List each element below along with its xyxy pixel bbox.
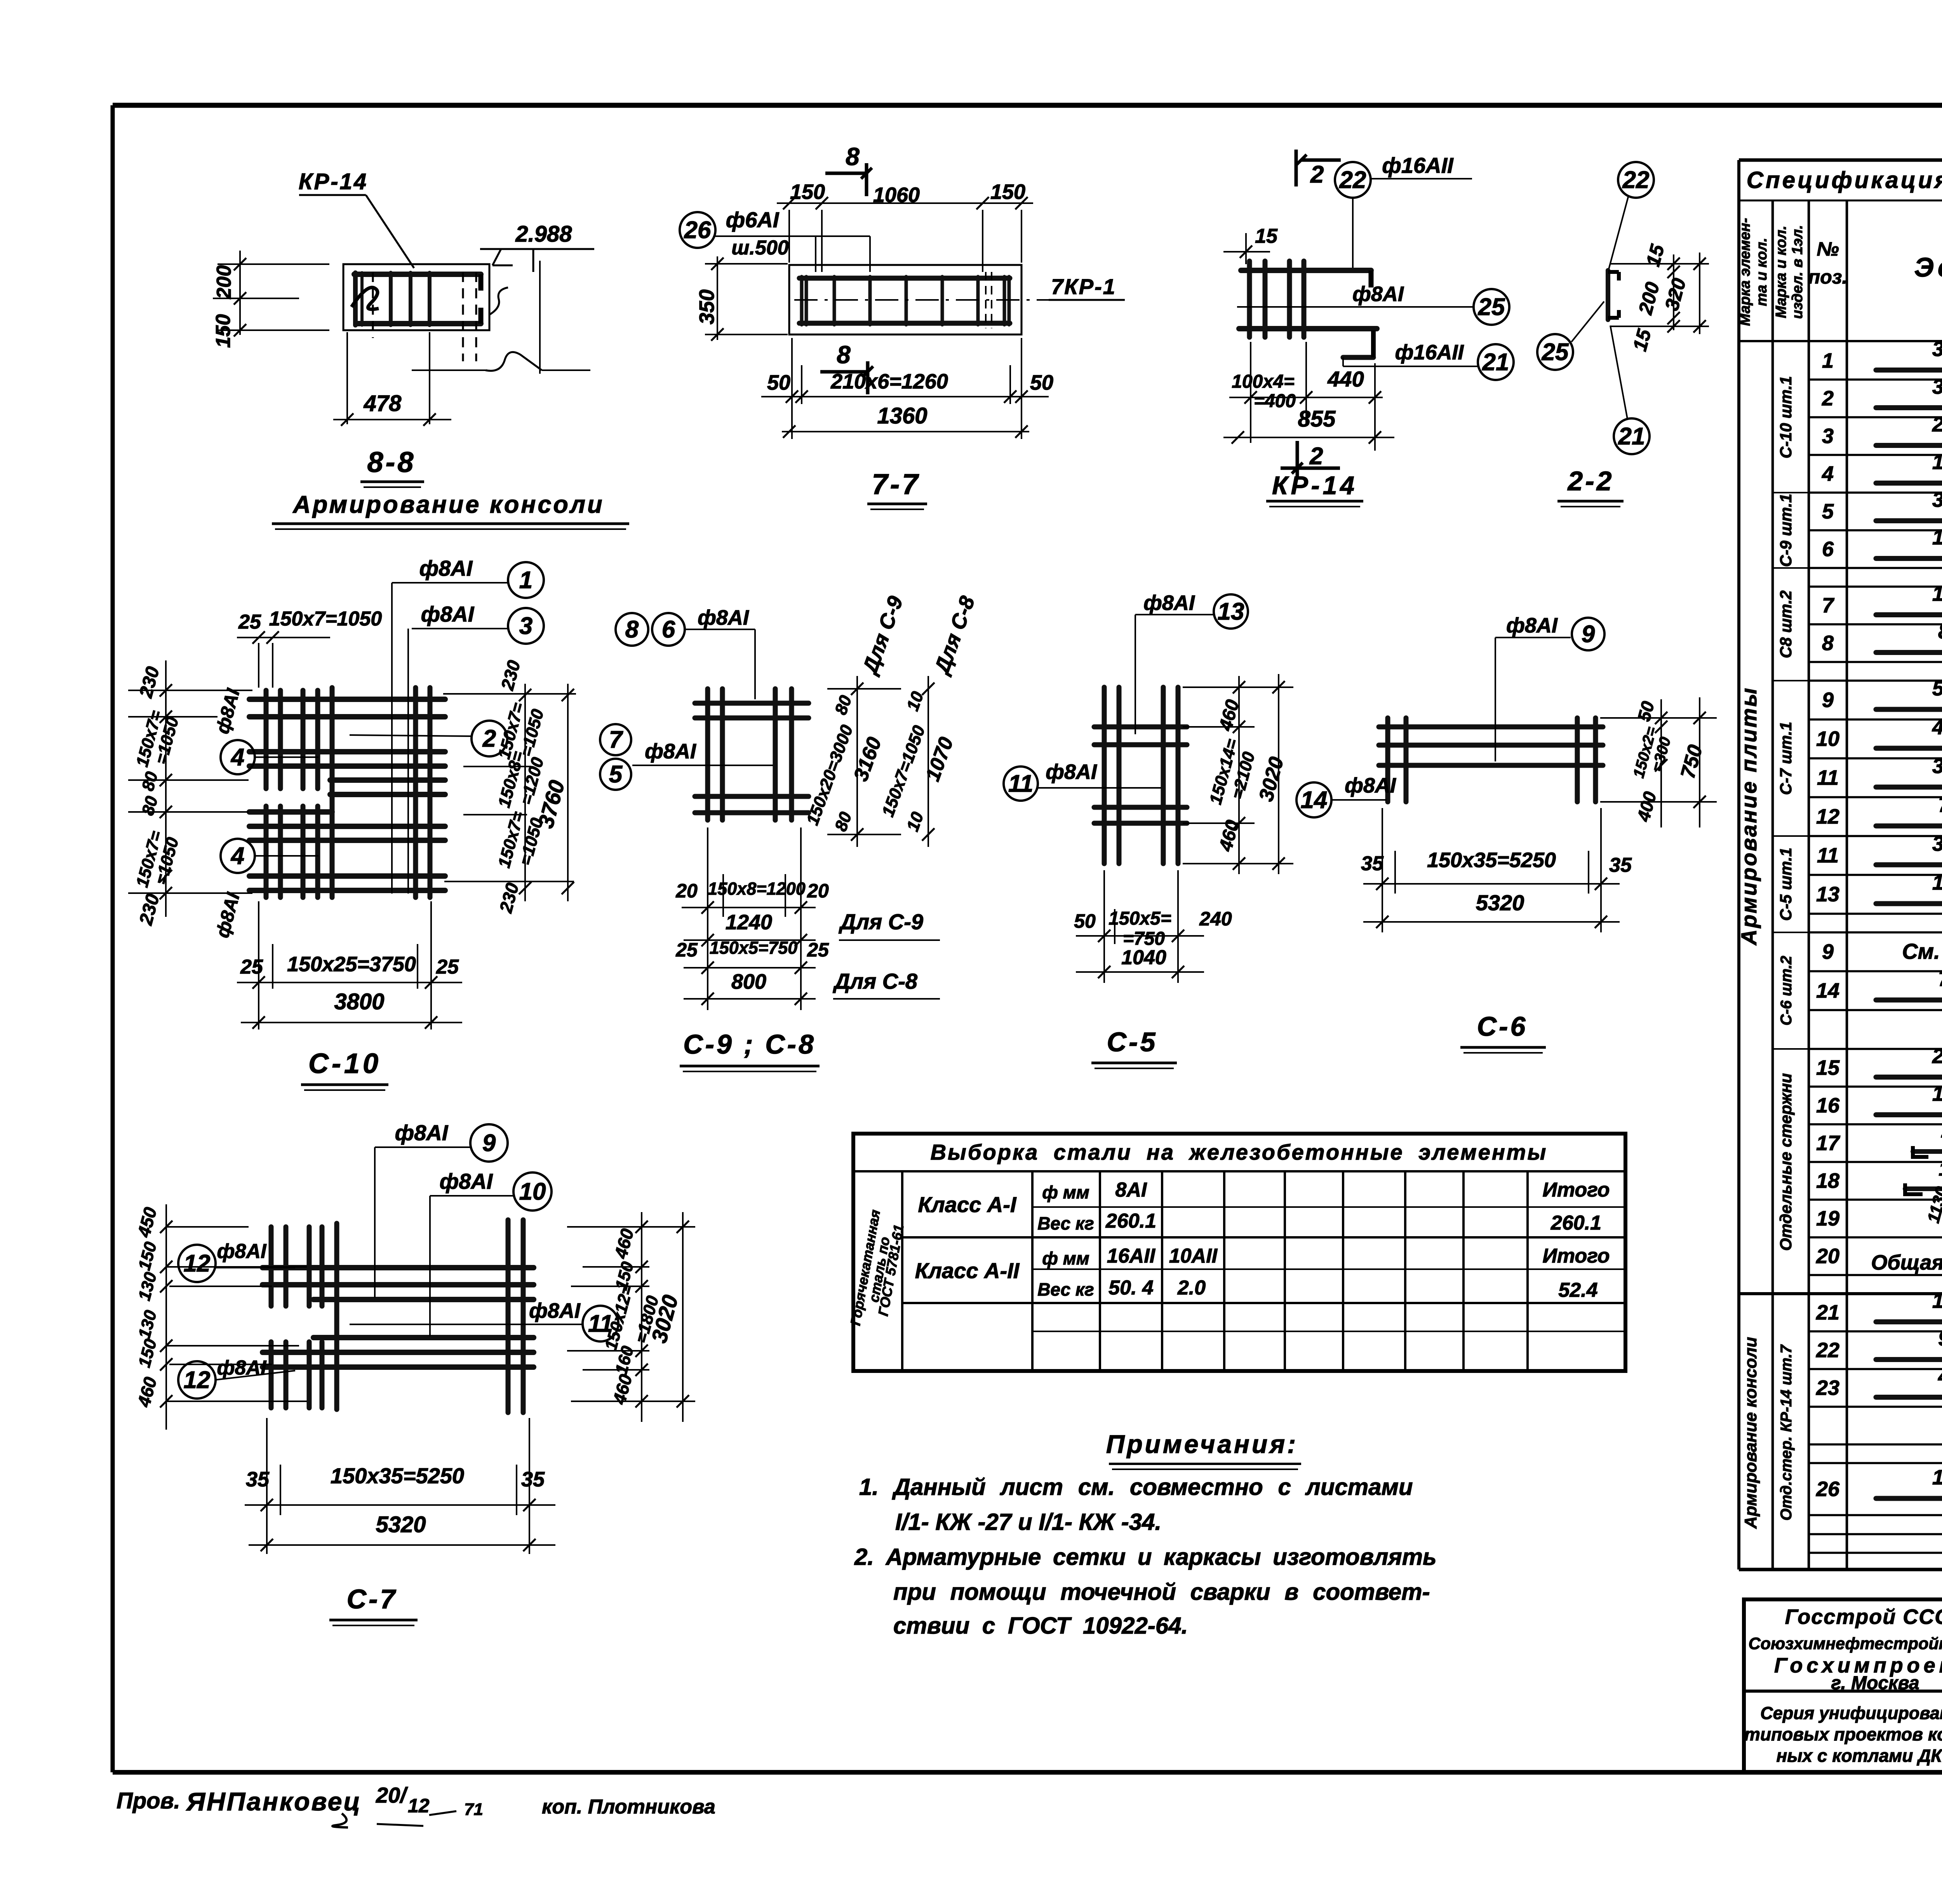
- svg-text:2: 2: [1309, 443, 1323, 470]
- svg-text:6: 6: [1822, 538, 1834, 561]
- svg-text:Итого: Итого: [1543, 1245, 1610, 1267]
- svg-text:25: 25: [1542, 339, 1569, 366]
- svg-text:издел. в 1эл.: издел. в 1эл.: [1789, 225, 1806, 319]
- svg-text:150x35=5250: 150x35=5250: [331, 1463, 464, 1488]
- svg-text:Вес кг: Вес кг: [1037, 1213, 1094, 1233]
- spec table row lines: [1809, 378, 1942, 381]
- right break line of 8-8: [539, 261, 541, 374]
- svg-text:26: 26: [684, 217, 711, 244]
- svg-text:ф8АI: ф8АI: [698, 606, 749, 629]
- svg-text:25: 25: [1478, 294, 1505, 321]
- svg-text:17: 17: [1816, 1132, 1841, 1155]
- svg-text:25: 25: [807, 939, 829, 961]
- svg-text:20: 20: [1816, 1245, 1839, 1268]
- svg-text:Пров.: Пров.: [117, 1788, 180, 1813]
- mesh C-6 bars: [1379, 725, 1603, 730]
- svg-text:ф8АI: ф8АI: [645, 740, 696, 763]
- svg-text:150x5=: 150x5=: [1108, 908, 1171, 929]
- svg-text:Союзхимнефтестройпроект: Союзхимнефтестройпроект: [1749, 1634, 1942, 1653]
- leader circles 8 6: [616, 613, 648, 646]
- svg-text:4: 4: [230, 744, 244, 771]
- svg-text:9: 9: [482, 1130, 496, 1157]
- svg-text:1: 1: [519, 567, 532, 594]
- svg-text:1040: 1040: [1121, 946, 1166, 969]
- mesh C-9 C-8 bars: [705, 689, 710, 820]
- svg-text:1360: 1360: [877, 403, 927, 429]
- svg-text:1240: 1240: [1932, 526, 1942, 549]
- svg-text:7: 7: [1822, 594, 1835, 617]
- KR-14 mesh bars: [1247, 261, 1252, 337]
- svg-text:3160: 3160: [1932, 488, 1942, 512]
- svg-text:71: 71: [464, 1800, 483, 1819]
- svg-text:С8 шт.2: С8 шт.2: [1777, 591, 1795, 658]
- svg-text:ных с котлами ДКВР.: ных с котлами ДКВР.: [1776, 1745, 1942, 1766]
- svg-text:22: 22: [1339, 167, 1366, 193]
- svg-text:20: 20: [807, 880, 829, 902]
- leader circle 12 upper of C-7: [178, 1245, 216, 1282]
- svg-text:22: 22: [1622, 167, 1650, 193]
- svg-text:при помощи точечной сварки: при помощи точечной сварки в соответ-: [893, 1579, 1430, 1605]
- leader circle 11 of C-5: [1004, 766, 1038, 801]
- svg-text:25: 25: [675, 939, 698, 961]
- svg-text:ф8АI: ф8АI: [1345, 774, 1396, 797]
- svg-text:8АI: 8АI: [1115, 1179, 1147, 1201]
- mesh C-5 bars: [1102, 687, 1107, 864]
- svg-text:12: 12: [184, 1367, 211, 1394]
- svg-text:1500: 1500: [1932, 1082, 1942, 1106]
- svg-text:ф8АI: ф8АI: [395, 1120, 449, 1145]
- svg-text:ЯНПанковец: ЯНПанковец: [186, 1787, 362, 1816]
- svg-text:Для С-8: Для С-8: [833, 969, 918, 993]
- svg-text:С-6: С-6: [1477, 1011, 1528, 1042]
- svg-text:5320: 5320: [376, 1512, 426, 1537]
- svg-text:50: 50: [1074, 910, 1096, 932]
- svg-text:1: 1: [1822, 349, 1834, 373]
- svg-text:Итого: Итого: [1543, 1179, 1610, 1201]
- svg-text:3760: 3760: [1932, 375, 1942, 399]
- svg-text:478: 478: [364, 391, 402, 416]
- svg-text:С-7: С-7: [347, 1584, 398, 1614]
- svg-text:7-7: 7-7: [872, 468, 921, 500]
- svg-text:9: 9: [1582, 621, 1595, 648]
- svg-text:14: 14: [1816, 979, 1839, 1002]
- leader circle 21 of 2-2: [1614, 418, 1650, 454]
- leader circle 26: [680, 212, 715, 248]
- svg-text:6: 6: [662, 616, 675, 643]
- section mark 2 top of KR-14: [1295, 150, 1298, 186]
- section 8-8 dashed bars: [372, 272, 374, 338]
- svg-text:2.988: 2.988: [515, 221, 572, 247]
- svg-text:типовых проектов котель-: типовых проектов котель-: [1744, 1724, 1942, 1744]
- svg-text:52.4: 52.4: [1558, 1279, 1597, 1301]
- svg-text:11: 11: [1817, 766, 1839, 789]
- svg-text:9: 9: [1822, 688, 1834, 712]
- svg-text:3: 3: [1822, 425, 1834, 448]
- svg-text:С-5: С-5: [1107, 1027, 1158, 1057]
- svg-text:12: 12: [408, 1795, 430, 1817]
- svg-text:Марка и кол.: Марка и кол.: [1773, 226, 1789, 318]
- svg-text:Армирование консоли: Армирование консоли: [1741, 1337, 1760, 1529]
- svg-text:440: 440: [1327, 367, 1364, 391]
- svg-text:25: 25: [238, 611, 261, 633]
- section 8-8 concrete outline: [343, 264, 489, 330]
- svg-text:3800: 3800: [1932, 338, 1942, 361]
- svg-text:200: 200: [213, 265, 235, 300]
- svg-text:С-6 шт.2: С-6 шт.2: [1778, 956, 1795, 1026]
- svg-text:3020: 3020: [1932, 754, 1942, 778]
- svg-text:260.1: 260.1: [1105, 1210, 1156, 1232]
- svg-text:740: 740: [1938, 793, 1942, 817]
- section 8-8 rebar cage: [354, 272, 481, 277]
- svg-text:10АII: 10АII: [1169, 1245, 1218, 1267]
- svg-text:18: 18: [1816, 1169, 1839, 1193]
- svg-text:ф6АI: ф6АI: [726, 207, 780, 232]
- svg-text:ф16АII: ф16АII: [1382, 153, 1454, 178]
- svg-text:ф8АI: ф8АI: [1352, 282, 1404, 306]
- svg-text:9: 9: [1822, 940, 1834, 963]
- svg-text:150x7=1050: 150x7=1050: [269, 608, 382, 630]
- svg-text:1360: 1360: [1932, 451, 1942, 474]
- svg-text:12: 12: [1816, 805, 1839, 828]
- svg-text:1040: 1040: [1932, 871, 1942, 894]
- svg-text:та и кол.: та и кол.: [1754, 238, 1770, 306]
- svg-text:С-9 ; С-8: С-9 ; С-8: [683, 1029, 816, 1059]
- svg-text:3020: 3020: [1932, 832, 1942, 855]
- svg-text:ф мм: ф мм: [1042, 1182, 1089, 1202]
- svg-text:1090: 1090: [1932, 1289, 1942, 1313]
- svg-text:8-8: 8-8: [367, 446, 416, 478]
- svg-text:100x4=: 100x4=: [1232, 371, 1295, 392]
- svg-text:ф8АI: ф8АI: [217, 1357, 267, 1379]
- svg-text:ф8АI: ф8АI: [1506, 614, 1558, 637]
- svg-text:11: 11: [1817, 844, 1839, 867]
- svg-text:350: 350: [695, 289, 719, 324]
- svg-text:3: 3: [519, 613, 532, 639]
- svg-text:35: 35: [1609, 854, 1632, 876]
- svg-text:10: 10: [1816, 727, 1839, 751]
- svg-text:4: 4: [230, 843, 244, 869]
- leader circles 7 5: [600, 724, 631, 755]
- svg-text:КР-14: КР-14: [299, 169, 368, 194]
- svg-text:ствии с ГОСТ 10922-64.: ствии с ГОСТ 10922-64.: [893, 1613, 1188, 1639]
- svg-text:14: 14: [1301, 787, 1328, 814]
- svg-text:4550: 4550: [1932, 716, 1942, 739]
- svg-text:ф8АI: ф8АI: [217, 1240, 267, 1263]
- svg-text:240: 240: [1199, 908, 1232, 930]
- section 7-7 rebar cage: [799, 276, 1010, 281]
- svg-text:Класс А-II: Класс А-II: [915, 1258, 1020, 1283]
- spec table col1 group lines: [1773, 492, 1809, 493]
- svg-text:11: 11: [1008, 770, 1033, 797]
- svg-text:150x35=5250: 150x35=5250: [1427, 848, 1556, 872]
- leader circle 2 right C-10: [472, 721, 507, 756]
- svg-text:260.1: 260.1: [1550, 1212, 1601, 1234]
- svg-text:ф16АII: ф16АII: [1395, 341, 1464, 364]
- svg-text:КР-14: КР-14: [1272, 471, 1357, 500]
- svg-text:1240: 1240: [726, 911, 772, 934]
- svg-text:13: 13: [1218, 598, 1244, 625]
- table vyborka stali horizontals: [1032, 1206, 1625, 1208]
- svg-text:50. 4: 50. 4: [1108, 1277, 1154, 1299]
- svg-text:2: 2: [1310, 161, 1324, 188]
- leader circle 22 KR-14: [1335, 162, 1371, 198]
- svg-text:Примечания:: Примечания:: [1106, 1430, 1298, 1458]
- svg-text:21: 21: [1816, 1301, 1839, 1324]
- 2-2 element plate: [1606, 270, 1610, 320]
- section 8-8 squiggle mark: [352, 287, 379, 309]
- svg-text:50: 50: [1030, 371, 1053, 394]
- svg-text:г. Москва: г. Москва: [1831, 1673, 1919, 1693]
- svg-text:13: 13: [1816, 883, 1839, 906]
- svg-text:3800: 3800: [334, 989, 384, 1014]
- svg-text:25: 25: [240, 956, 263, 978]
- svg-text:2: 2: [482, 725, 496, 752]
- svg-text:Отд.стер. КР-14 шт.7: Отд.стер. КР-14 шт.7: [1778, 1344, 1795, 1521]
- svg-text:I/1- КЖ -27 и I/1- КЖ -34.: I/1- КЖ -27 и I/1- КЖ -34.: [895, 1509, 1161, 1535]
- svg-text:23: 23: [1816, 1376, 1839, 1400]
- svg-text:800: 800: [1938, 620, 1942, 643]
- svg-text:Вес кг: Вес кг: [1037, 1279, 1094, 1300]
- svg-text:475: 475: [1938, 1365, 1942, 1388]
- table vyborka stali verticals: [901, 1171, 903, 1371]
- svg-text:Госстрой СССР: Госстрой СССР: [1785, 1605, 1942, 1629]
- svg-text:5320: 5320: [1932, 677, 1942, 700]
- svg-text:2740: 2740: [1932, 413, 1942, 436]
- section 7-7 concrete outline: [789, 265, 1021, 334]
- leader circle 4 lower C-10: [221, 839, 255, 873]
- spec table group separator thick: [1739, 1292, 1942, 1295]
- svg-text:1300: 1300: [1932, 1466, 1942, 1489]
- leader circle 25 of 2-2: [1537, 334, 1573, 370]
- svg-text:№: №: [1817, 238, 1839, 260]
- svg-text:955: 955: [1938, 1327, 1942, 1350]
- border frame: [113, 103, 1942, 108]
- svg-text:20: 20: [675, 880, 698, 902]
- svg-text:750: 750: [1938, 967, 1942, 991]
- svg-text:1. Данный лист см. совмест: 1. Данный лист см. совместно с листами: [859, 1474, 1413, 1500]
- svg-text:ф8АI: ф8АI: [421, 602, 475, 626]
- svg-text:5320: 5320: [1476, 890, 1524, 915]
- svg-text:2.0: 2.0: [1177, 1277, 1206, 1299]
- svg-text:1070: 1070: [1932, 582, 1942, 606]
- svg-text:2. Арматурные сетки и каркас: 2. Арматурные сетки и каркасы изготовлят…: [854, 1544, 1437, 1570]
- svg-text:Для С-9: Для С-9: [839, 909, 923, 934]
- spec table vertical lines: [1771, 200, 1774, 1570]
- svg-text:150x25=3750: 150x25=3750: [287, 953, 416, 976]
- svg-text:16АII: 16АII: [1107, 1245, 1156, 1267]
- mesh C-7 bars: [269, 1227, 274, 1306]
- svg-text:150x5=750: 150x5=750: [710, 938, 798, 958]
- svg-text:35: 35: [521, 1468, 545, 1491]
- svg-text:8: 8: [837, 341, 851, 369]
- svg-text:35: 35: [1361, 852, 1384, 875]
- leader circle 14 of C-6: [1296, 782, 1331, 817]
- svg-text:Марка элемен-: Марка элемен-: [1737, 218, 1753, 326]
- svg-text:16: 16: [1816, 1094, 1840, 1117]
- svg-text:8: 8: [1822, 632, 1834, 655]
- dim 478 below 8-8: [346, 332, 348, 424]
- svg-text:150x8=1200: 150x8=1200: [708, 879, 806, 899]
- svg-text:См. выше: См. выше: [1902, 939, 1942, 963]
- svg-text:ф мм: ф мм: [1042, 1248, 1089, 1268]
- svg-text:2-2: 2-2: [1567, 466, 1614, 496]
- svg-text:15: 15: [1255, 225, 1278, 247]
- stamp outer box: [1744, 1599, 1942, 1772]
- svg-text:19: 19: [1816, 1207, 1839, 1230]
- svg-text:35: 35: [246, 1468, 270, 1491]
- svg-text:С-10 шт.1: С-10 шт.1: [1777, 376, 1795, 458]
- leader circle 22 of 2-2: [1618, 162, 1654, 198]
- svg-text:ф8АI: ф8АI: [440, 1169, 493, 1193]
- svg-text:4: 4: [1822, 462, 1834, 486]
- svg-text:5: 5: [609, 761, 623, 788]
- leader circle 12 lower of C-7: [178, 1361, 216, 1399]
- svg-text:Армирование консоли: Армирование консоли: [292, 491, 604, 518]
- svg-text:ф8АI: ф8АI: [529, 1299, 581, 1322]
- mesh C-10 bars: [249, 697, 445, 702]
- table vyborka stali outer: [853, 1134, 1625, 1371]
- svg-text:5: 5: [1822, 500, 1834, 523]
- svg-text:Класс А-I: Класс А-I: [918, 1192, 1017, 1217]
- svg-text:150: 150: [790, 180, 825, 204]
- svg-text:Армирование плиты: Армирование плиты: [1737, 686, 1761, 946]
- svg-text:12: 12: [184, 1250, 211, 1277]
- spec table outer and header lines: [1739, 159, 1942, 162]
- svg-text:ф8АI: ф8АI: [419, 556, 473, 580]
- svg-text:21: 21: [1618, 423, 1645, 450]
- svg-text:7КР-1: 7КР-1: [1051, 274, 1116, 299]
- svg-text:Выборка стали на железобето: Выборка стали на железобетонные элементы: [931, 1140, 1548, 1164]
- svg-text:поз.: поз.: [1808, 266, 1848, 288]
- svg-text:855: 855: [1298, 406, 1336, 432]
- svg-text:С-10: С-10: [308, 1048, 381, 1079]
- svg-text:15: 15: [1816, 1056, 1840, 1080]
- svg-text:Спецификация стали на 1 элем: Спецификация стали на 1 элемент: [1747, 167, 1942, 193]
- svg-text:8: 8: [846, 143, 860, 171]
- leader 7KR-1: [794, 299, 1122, 301]
- svg-text:Отдельные стержни: Отдельные стержни: [1777, 1073, 1795, 1251]
- svg-text:26: 26: [1816, 1477, 1840, 1501]
- svg-text:2900: 2900: [1932, 1045, 1942, 1068]
- svg-text:210x6=1260: 210x6=1260: [830, 370, 948, 393]
- section mark 2 bottom of KR-14: [1296, 441, 1299, 478]
- svg-text:1130: 1130: [1939, 1158, 1942, 1180]
- svg-text:Серия унифицированных: Серия унифицированных: [1760, 1703, 1942, 1723]
- svg-text:25: 25: [436, 956, 459, 978]
- svg-text:2: 2: [1822, 387, 1834, 410]
- svg-text:С-7 шт.1: С-7 шт.1: [1777, 722, 1795, 795]
- svg-text:20/: 20/: [376, 1783, 408, 1807]
- svg-text:21: 21: [1482, 349, 1509, 376]
- svg-text:7: 7: [609, 726, 623, 753]
- svg-text:150: 150: [990, 180, 1025, 204]
- svg-text:С-9 шт.1: С-9 шт.1: [1777, 494, 1795, 567]
- svg-text:50: 50: [767, 371, 790, 394]
- svg-text:10: 10: [519, 1178, 546, 1205]
- svg-text:Общая длина: Общая длина: [1871, 1251, 1942, 1274]
- KR-14 bar 21 with hook: [1343, 355, 1373, 360]
- svg-text:800: 800: [731, 970, 766, 993]
- svg-text:С-5 шт.1: С-5 шт.1: [1777, 848, 1795, 921]
- svg-text:Эскиз: Эскиз: [1914, 252, 1942, 282]
- svg-text:ф8АI: ф8АI: [1143, 591, 1195, 615]
- svg-text:ш.500: ш.500: [731, 237, 789, 259]
- svg-text:ф8АI: ф8АI: [1046, 760, 1097, 784]
- svg-text:=400: =400: [1254, 391, 1296, 411]
- svg-text:22: 22: [1816, 1339, 1839, 1362]
- svg-text:8: 8: [625, 616, 639, 643]
- svg-text:коп. Плотникова: коп. Плотникова: [542, 1796, 715, 1818]
